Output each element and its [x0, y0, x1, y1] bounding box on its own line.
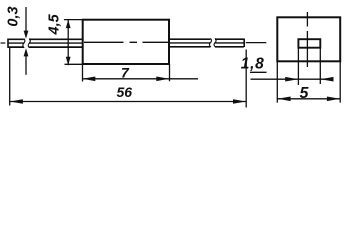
svg-text:56: 56	[117, 84, 133, 100]
vertical centerline of end view	[306, 12, 308, 67]
dimension 56	[10, 101, 247, 103]
extension line top	[64, 19, 83, 21]
right lead wire	[169, 39, 244, 48]
svg-text:1,8: 1,8	[241, 55, 265, 72]
end view square	[277, 17, 340, 61]
component body (side view)	[83, 20, 169, 64]
left axis dash	[1, 42, 6, 44]
dimension 0,3 arrows	[25, 7, 27, 32]
dimension 4,5 line	[67, 20, 69, 65]
left lead wire	[8, 39, 83, 48]
extension lines for 7	[83, 64, 170, 82]
svg-text:7: 7	[121, 64, 130, 80]
right lead break marks	[209, 38, 216, 47]
svg-text:5: 5	[300, 85, 310, 102]
body axis centerline (dash-dot)	[84, 41, 168, 43]
dimension 1,8	[251, 78, 334, 80]
left lead break marks	[23, 39, 31, 48]
dimension 7	[82, 78, 198, 80]
dimension 5	[277, 98, 340, 100]
extension lines for 5	[277, 62, 340, 103]
svg-text:0,3: 0,3	[5, 6, 21, 26]
right axis dash	[246, 42, 266, 44]
svg-text:4,5: 4,5	[47, 13, 63, 35]
extension lines for 56	[10, 48, 247, 108]
extension line bottom	[65, 63, 83, 65]
extension lines below cross-section	[298, 48, 320, 85]
lead cross-section rect	[298, 39, 320, 48]
label shelf	[250, 71, 267, 73]
